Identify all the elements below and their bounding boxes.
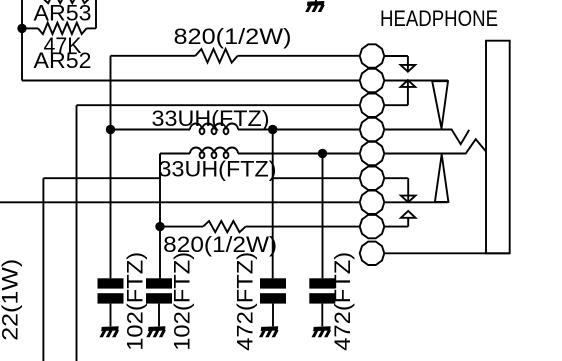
svg-text:820(1/2W): 820(1/2W)	[174, 24, 292, 49]
wire headphone jack pin8 left	[160, 226, 360, 228]
resistor AR53 (partial at top edge)	[34, 0, 92, 25]
headphone jack sleeve body	[486, 41, 510, 254]
contact arrow down (pin6)	[401, 196, 416, 203]
contact arrow down (pin1)	[401, 65, 416, 72]
wire pin9 right to jack sleeve	[384, 252, 509, 254]
chassis ground C2	[146, 326, 166, 337]
plug prong upper (tip)	[432, 81, 448, 128]
wire headphone jack pin6 left	[273, 177, 360, 179]
wire vertical bus from AR52/AR53 left	[21, 0, 23, 81]
inductor L 33UH(FTZ) lower	[159, 148, 277, 182]
wire headphone jack pin3 left	[77, 105, 360, 361]
wire pin5 right ring-spring contact	[384, 139, 486, 153]
svg-text:472(FTZ): 472(FTZ)	[330, 252, 355, 351]
chassis ground C4	[312, 326, 332, 337]
wire pin3 right to contact arrow	[384, 81, 408, 106]
resistor 820(1/2W) upper	[174, 24, 292, 63]
wire pin2 right to plug tip prong	[384, 80, 448, 82]
chassis ground (top, partial)	[305, 0, 325, 12]
label C2 value 102(FTZ)	[170, 252, 195, 351]
wire pin1 right to contact arrow	[384, 56, 408, 72]
junction dot pin4/C1 bus	[106, 125, 115, 134]
svg-text:102(FTZ): 102(FTZ)	[122, 252, 147, 351]
label C3 value 472(FTZ)	[233, 252, 258, 351]
svg-text:HEADPHONE: HEADPHONE	[380, 6, 498, 31]
wire coil L2 left down and across	[43, 154, 160, 361]
capacitor C3 472(FTZ)	[260, 278, 286, 326]
junction dot pin4/C3 bus	[268, 125, 277, 134]
wire pin6 right to contact arrow	[384, 178, 408, 202]
headphone jack pin 2	[360, 69, 385, 92]
headphone jack pin 4	[360, 118, 385, 141]
wire vertical bus pin5 to C4	[322, 154, 324, 279]
label C4 value 472(FTZ)	[330, 252, 355, 351]
resistor AR52 47K	[22, 23, 92, 73]
wire headphone jack pin7 left	[0, 201, 360, 203]
wire headphone jack pin2 left	[22, 80, 360, 82]
wire vertical bus pin4 to C3	[272, 130, 274, 279]
wire pin7 right to plug prong lower	[384, 201, 447, 203]
junction dot pin5/C4 bus	[318, 149, 327, 158]
capacitor C1 102(FTZ)	[98, 278, 124, 326]
contact arrow up (pin8)	[401, 211, 416, 218]
svg-text:472(FTZ): 472(FTZ)	[233, 252, 258, 351]
svg-text:AR53: AR53	[34, 0, 92, 25]
wire pin4 right tip-spring contact	[384, 130, 469, 145]
label 22(1W) resistor left edge	[0, 259, 23, 341]
junction dot node AR52 left	[17, 24, 26, 33]
wire vertical bus coil L2 to C2	[159, 154, 161, 280]
wire pin8 right to contact arrow	[384, 218, 408, 227]
contact arrow up (pin3)	[401, 80, 416, 87]
svg-text:33UH(FTZ): 33UH(FTZ)	[152, 106, 270, 131]
headphone jack pin 1	[360, 44, 385, 67]
label C1 value 102(FTZ)	[122, 252, 147, 351]
chassis ground C3	[259, 326, 279, 337]
capacitor C2 102(FTZ)	[146, 278, 172, 326]
inductor L 33UH(FTZ) upper	[152, 106, 270, 135]
wire headphone jack pin1 left	[111, 55, 360, 57]
svg-text:102(FTZ): 102(FTZ)	[170, 252, 195, 351]
headphone jack pin 5	[360, 142, 385, 165]
headphone jack pin 6	[360, 167, 385, 190]
wire headphone jack pin5 left	[160, 153, 360, 155]
plug prong lower	[435, 154, 449, 202]
wire vertical bus from AR53 right	[87, 0, 97, 28]
headphone jack pin 9	[360, 242, 385, 265]
wire headphone jack pin4 left	[111, 129, 360, 131]
label HEADPHONE	[380, 6, 498, 31]
svg-text:33UH(FTZ): 33UH(FTZ)	[159, 157, 277, 182]
svg-text:22(1W): 22(1W)	[0, 259, 23, 341]
capacitor C4 472(FTZ)	[309, 278, 335, 326]
headphone jack pin 8	[360, 215, 385, 238]
wire vertical bus pin1 to C1	[110, 56, 112, 278]
headphone jack pin 3	[360, 94, 385, 117]
svg-text:AR52: AR52	[34, 48, 92, 73]
resistor 820(1/2W) lower	[163, 221, 277, 257]
chassis ground C1	[100, 326, 120, 337]
junction dot R820 lower left	[155, 222, 164, 231]
headphone jack pin 7	[360, 191, 385, 214]
